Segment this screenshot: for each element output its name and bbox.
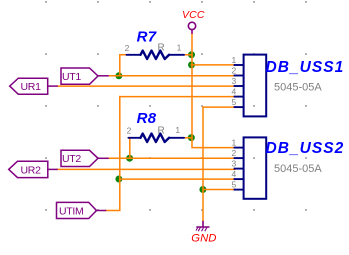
- svg-text:2: 2: [232, 148, 237, 158]
- connector U2 body: [244, 137, 267, 198]
- resistor R8: [128, 134, 184, 142]
- junction dot: VCC / R8 pin1: [188, 134, 195, 141]
- U1 pin 3: [234, 85, 244, 87]
- svg-text:2: 2: [125, 43, 130, 53]
- port UR2: [9, 161, 48, 177]
- svg-text:DB_USS2: DB_USS2: [266, 140, 345, 157]
- U2 pin 5: [234, 189, 244, 191]
- svg-text:2: 2: [232, 66, 237, 76]
- wire: R8 pin1 to VCC net: [184, 137, 192, 139]
- svg-text:5045-05A: 5045-05A: [274, 163, 322, 175]
- wire: UTIM net to DB_USS2 pin 4: [120, 178, 235, 180]
- U1 pin 4: [234, 96, 244, 98]
- power symbol VCC: [188, 22, 195, 34]
- svg-text:5045-05A: 5045-05A: [274, 82, 322, 94]
- junction dot: UTIM / U2 pin4: [115, 176, 122, 183]
- wire: UR1 to DB_USS1 pin 3: [57, 85, 235, 87]
- wire: DB_USS2 pin 5 to GND net: [203, 189, 235, 191]
- wire stub: UT1 port lead: [98, 75, 108, 77]
- port UT2: [61, 150, 98, 166]
- wire: UTIM net to DB_USS1 pin 4: [120, 96, 235, 98]
- svg-text:5: 5: [232, 180, 237, 190]
- wire: UR2 to DB_USS2 pin 3: [57, 168, 235, 170]
- svg-text:R: R: [158, 43, 165, 54]
- wire: R7 pin1 to VCC net: [184, 54, 192, 56]
- svg-text:1: 1: [232, 138, 237, 148]
- U2 pin 4: [234, 178, 244, 180]
- wire: VCC to DB_USS1 pin 1: [191, 64, 235, 66]
- junction dot: VCC / wire to U1 pin1: [188, 61, 195, 68]
- svg-text:4: 4: [232, 87, 237, 97]
- U2 pin 2: [234, 157, 244, 159]
- wire: R8 pin2 drop to UT2 node: [129, 138, 131, 158]
- svg-text:VCC: VCC: [182, 9, 205, 21]
- svg-text:4: 4: [232, 169, 237, 179]
- U2 pin 3: [234, 168, 244, 170]
- wire: GND vertical: [202, 107, 204, 221]
- ground symbol GND: [196, 221, 210, 231]
- svg-text:2: 2: [127, 126, 132, 136]
- svg-text:3: 3: [232, 76, 237, 86]
- svg-text:UT2: UT2: [62, 153, 81, 165]
- wire stub: UT2 port lead: [98, 157, 108, 159]
- U1 pin 5: [234, 106, 244, 108]
- junction dot: GND / U2 pin5: [199, 186, 206, 193]
- svg-text:5: 5: [232, 97, 237, 107]
- wire stub: UTIM port lead: [96, 210, 106, 212]
- svg-text:DB_USS1: DB_USS1: [266, 59, 345, 76]
- U2 pin 1: [234, 147, 244, 149]
- wire: R7 pin2 drop to UT1 node: [120, 55, 127, 76]
- svg-text:R: R: [158, 125, 165, 136]
- svg-text:R7: R7: [137, 29, 157, 46]
- wire stub: UR1 port lead: [48, 85, 57, 87]
- svg-text:1: 1: [177, 43, 182, 53]
- junction dot: VCC / R7 pin1: [188, 51, 195, 58]
- wire: VCC vertical down to DB_USS2 pin 1: [192, 34, 235, 148]
- wire: UTIM vertical riser: [106, 97, 120, 211]
- svg-text:GND: GND: [191, 233, 216, 245]
- svg-text:UR1: UR1: [21, 81, 42, 93]
- wire: UT2 to DB_USS2 pin 2: [108, 157, 235, 159]
- svg-text:UT1: UT1: [62, 71, 81, 83]
- junction dot: UT2 / R8 pin2: [126, 155, 133, 162]
- port UR1: [10, 78, 48, 94]
- svg-text:UTIM: UTIM: [59, 205, 83, 217]
- svg-text:1: 1: [232, 55, 237, 65]
- svg-text:R8: R8: [137, 110, 157, 127]
- svg-text:3: 3: [232, 159, 237, 169]
- connector U1 body: [244, 55, 267, 117]
- resistor R7: [127, 51, 185, 59]
- U1 pin 2: [234, 75, 244, 77]
- junction dot: UT1 / R7 pin2: [115, 72, 122, 79]
- wire stub: UR2 port lead: [48, 168, 57, 170]
- wire: UT1 to DB_USS1 pin 2: [108, 75, 235, 77]
- svg-text:1: 1: [175, 125, 180, 135]
- U1 pin 1: [234, 64, 244, 66]
- wire: DB_USS1 pin 5 to GND net: [203, 106, 235, 108]
- port UT1: [61, 68, 98, 84]
- svg-text:UR2: UR2: [21, 165, 42, 177]
- port UTIM: [57, 202, 97, 218]
